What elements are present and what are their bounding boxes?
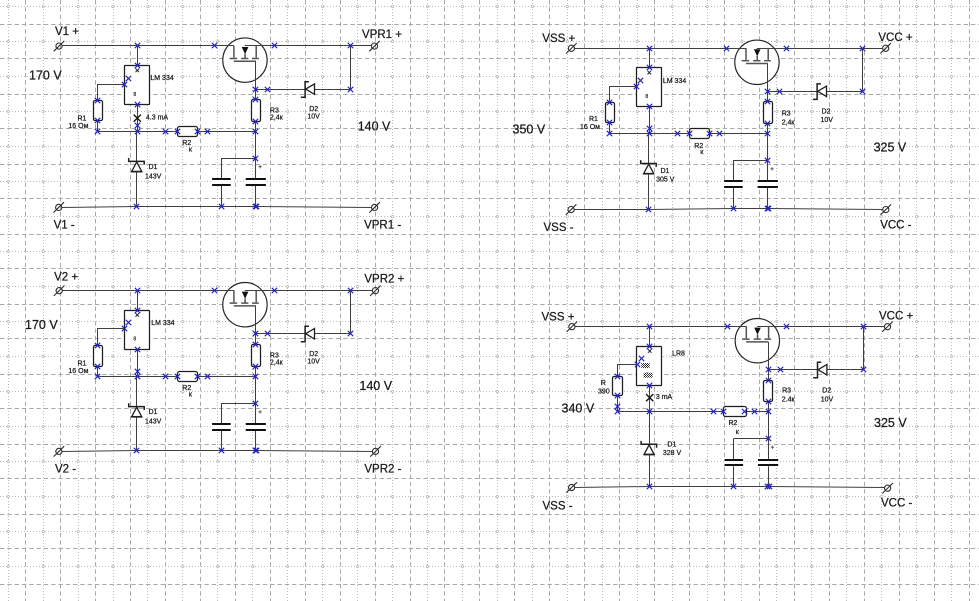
node marks regulator [635, 344, 652, 388]
node marks regulator [122, 308, 140, 352]
svg-text:LR8: LR8 [672, 351, 685, 358]
svg-text:8: 8 [133, 337, 136, 343]
resistor R2 [178, 127, 198, 154]
capacitor C left B [723, 160, 744, 208]
wire right branch to top rail [350, 46, 352, 89]
polarity mark [770, 167, 773, 170]
wire mosfet channel to drain node [768, 342, 770, 370]
node marks top rail [135, 288, 353, 293]
svg-text:LM 334: LM 334 [151, 320, 174, 327]
polarity mark [258, 165, 261, 168]
svg-text:D1: D1 [667, 441, 676, 448]
svg-text:VCC +: VCC + [879, 311, 913, 323]
terminal VSS + [566, 43, 577, 53]
node marks capacitors [134, 401, 259, 453]
wire capacitor branch [221, 403, 255, 405]
resistor R2 [690, 129, 710, 156]
zener D2 10V [813, 84, 833, 124]
mosfet Q C [223, 283, 268, 327]
resistor R [598, 377, 623, 396]
svg-text:VCC +: VCC + [878, 32, 912, 44]
wire drain node to R3 [767, 91, 769, 101]
wire bus to D1 [648, 134, 650, 164]
wire R1 to bus [617, 396, 619, 412]
svg-text:10V: 10V [307, 114, 320, 121]
svg-text:4.3 mA: 4.3 mA [146, 114, 169, 121]
wire bus [610, 133, 768, 135]
terminal VCC - [882, 483, 893, 493]
svg-text:VSS -: VSS - [543, 501, 573, 513]
wire R3 to bus [768, 402, 770, 412]
svg-text:340 V: 340 V [562, 401, 595, 415]
zener D1 143V [129, 403, 162, 425]
svg-text:8: 8 [133, 92, 136, 98]
node marks drain [765, 89, 865, 94]
wire bus [98, 131, 256, 133]
svg-text:VCC -: VCC - [881, 498, 912, 510]
svg-text:D2: D2 [309, 351, 318, 358]
mosfet Q A [223, 38, 268, 82]
node marks capacitors [647, 436, 772, 489]
capacitor C right A [245, 158, 267, 206]
resistor R2 [724, 407, 747, 436]
node marks top rail [647, 46, 865, 51]
wire capacitor branch [734, 438, 768, 440]
svg-text:D1: D1 [149, 164, 158, 171]
wire D1 to bottom rail [136, 172, 138, 207]
svg-text:350 V: 350 V [513, 123, 546, 137]
svg-text:VPR1 +: VPR1 + [362, 29, 402, 41]
svg-text:R1: R1 [78, 115, 87, 122]
resistor R3 [252, 100, 284, 122]
zener D1 328 V [641, 441, 681, 457]
wire bus to capacitor node [255, 131, 257, 158]
svg-text:R3: R3 [270, 352, 279, 359]
wire drain node to R3 [255, 89, 257, 99]
svg-text:143V: 143V [145, 418, 162, 425]
terminal VPR2 - [370, 446, 381, 456]
svg-text:VCC -: VCC - [880, 219, 911, 231]
svg-text:D2: D2 [309, 106, 318, 113]
wire regulator R-pin to R1 [98, 85, 125, 101]
wire D1 to bottom rail [648, 174, 650, 209]
wire mosfet channel to drain node [767, 64, 769, 92]
wire bottom rail VSS - to VCC - [575, 209, 883, 210]
svg-text:VPR1 -: VPR1 - [364, 220, 401, 232]
wire bus to D1 [136, 377, 138, 407]
svg-text:V1 -: V1 - [54, 220, 75, 232]
regulator U LM 334 [125, 66, 174, 105]
svg-text:R3: R3 [782, 387, 791, 394]
svg-text:R1: R1 [589, 116, 598, 123]
resistor R3 [764, 381, 796, 404]
node marks R1 [95, 98, 100, 134]
wire R1 to bus [609, 123, 611, 134]
resistor R1 [68, 346, 102, 375]
node marks capacitors [134, 156, 259, 209]
wire R1 to bus [97, 121, 99, 132]
svg-text:V2 +: V2 + [54, 271, 78, 283]
wire regulator output to bus [137, 349, 139, 376]
svg-text:VSS -: VSS - [544, 222, 574, 234]
svg-text:16 Ом: 16 Ом [68, 368, 88, 375]
node marks R3 [766, 378, 771, 414]
zener D1 143V [129, 158, 162, 180]
wire bus to capacitor node [255, 377, 257, 404]
terminal V1 + [54, 41, 65, 51]
capacitor C right C [245, 403, 267, 450]
wire bottom rail V1 - to VPR1 - [62, 207, 372, 208]
node marks bus and R2 [675, 131, 722, 136]
wire bus to capacitor node [767, 134, 769, 161]
node marks R1 [615, 374, 620, 414]
node marks bus and R2 [163, 374, 210, 379]
terminal VSS - [566, 204, 577, 214]
svg-text:143V: 143V [145, 173, 162, 180]
svg-text:V1 +: V1 + [55, 26, 79, 38]
resistor R2 [178, 372, 198, 399]
svg-text:VSS +: VSS + [542, 33, 575, 45]
node marks R3 [765, 99, 770, 136]
wire top rail VSS + to VCC + [575, 326, 746, 328]
wire R1 to bus [97, 366, 99, 377]
wire top rail VSS + to VCC + [575, 48, 746, 50]
zener D1 305 V [641, 160, 675, 183]
terminal VCC - [881, 204, 892, 214]
wire top rail V2 + to VPR2 + [62, 290, 234, 292]
node marks R1 [95, 343, 100, 379]
node marks regulator output [615, 404, 652, 414]
wire capacitor branch [733, 160, 767, 162]
zener D2 10V [301, 326, 320, 365]
terminal VPR1 - [369, 202, 380, 212]
svg-text:10V: 10V [821, 397, 834, 404]
svg-text:325 V: 325 V [874, 141, 907, 155]
svg-text:R3: R3 [782, 111, 791, 118]
wire regulator output to bus [649, 385, 651, 412]
regulator U LM 334 [637, 68, 687, 107]
resistor R3 [764, 102, 796, 127]
node marks R3 [253, 342, 258, 379]
node marks top rail [135, 43, 353, 48]
svg-text:LM 334: LM 334 [663, 78, 686, 85]
mosfet Q B [735, 40, 780, 84]
regulator U LR8 [637, 347, 686, 386]
zener D2 10V [301, 82, 320, 121]
wire top rail to regulator input [649, 48, 651, 68]
svg-text:325 V: 325 V [874, 416, 907, 430]
polarity mark [258, 410, 261, 413]
node marks R3 [253, 97, 258, 134]
resistor R3 [252, 345, 284, 367]
wire bottom rail VSS - to VCC - [575, 487, 885, 488]
wire capacitor branch [221, 158, 255, 160]
current marker 3 mA [646, 394, 672, 401]
svg-text:10V: 10V [821, 117, 834, 124]
terminal V1 - [53, 202, 64, 212]
terminal VCC + [882, 322, 893, 332]
node marks bus and R2 [163, 129, 210, 134]
wire top rail to regulator input [137, 46, 139, 66]
node marks bus and R2 [711, 409, 757, 414]
wire top rail to regulator input [137, 290, 139, 310]
node marks capacitors [646, 158, 771, 212]
wire regulator output to bus [649, 107, 651, 134]
svg-text:D2: D2 [822, 387, 831, 394]
current marker 4.3 mA [134, 114, 169, 122]
svg-text:VSS +: VSS + [542, 312, 575, 324]
wire bus [617, 411, 768, 413]
wire drain node to R3 [768, 370, 770, 380]
wire regulator R-pin to R1 [98, 329, 125, 346]
polarity mark [771, 446, 774, 449]
svg-text:140 V: 140 V [359, 379, 392, 393]
node marks regulator output [135, 369, 140, 379]
wire mosfet channel to drain node [255, 61, 257, 89]
wire drain node to R3 [255, 334, 257, 345]
zener D2 10V [813, 362, 833, 403]
wire regulator output to bus [137, 105, 139, 132]
wire D1 to bottom rail [649, 455, 651, 487]
terminal VCC + [880, 43, 891, 53]
svg-text:2,4к: 2,4к [270, 115, 284, 122]
wire drain node to D2 [768, 369, 863, 371]
wire bus [98, 376, 256, 378]
wire mosfet channel to drain node [255, 306, 257, 334]
wire regulator R-pin to R1 [618, 365, 637, 377]
svg-text:VPR2 -: VPR2 - [364, 463, 401, 475]
node marks drain [253, 87, 353, 92]
wire top rail V1 + to VPR1 + [62, 45, 234, 47]
wire R3 to bus [767, 123, 769, 133]
wire R3 to bus [255, 366, 257, 376]
svg-text:2,4к: 2,4к [782, 120, 796, 127]
svg-text:D2: D2 [822, 109, 831, 116]
terminal VSS + [567, 322, 578, 332]
svg-text:R1: R1 [78, 361, 87, 368]
node marks R1 [607, 100, 612, 136]
svg-text:V2 -: V2 - [55, 463, 76, 475]
terminal VPR1 + [369, 41, 380, 51]
terminal VSS - [566, 482, 577, 492]
svg-text:16 Ом: 16 Ом [580, 124, 600, 131]
svg-text:D1: D1 [661, 168, 670, 175]
capacitor C right B [757, 160, 779, 208]
resistor R1 [68, 101, 102, 130]
svg-text:10V: 10V [307, 359, 320, 366]
svg-text:R3: R3 [270, 107, 279, 114]
svg-text:R2: R2 [729, 420, 738, 427]
svg-text:2.4к: 2.4к [782, 397, 796, 404]
svg-text:2,4к: 2,4к [270, 360, 284, 367]
capacitor C left C [211, 403, 232, 450]
node marks regulator output [135, 123, 140, 134]
capacitor C left D [724, 439, 745, 487]
wire regulator R-pin to R1 [610, 87, 637, 103]
wire right branch to top rail [862, 48, 864, 91]
wire bus to D1 [649, 412, 651, 444]
svg-text:3 mA: 3 mA [656, 394, 673, 401]
svg-text:R: R [601, 380, 606, 387]
capacitor C right D [757, 439, 779, 487]
terminal VPR2 + [370, 286, 381, 296]
wire drain node to D2 [768, 91, 863, 93]
terminal V2 - [54, 446, 65, 456]
node marks regulator [634, 65, 652, 109]
wire R3 to bus [255, 121, 257, 131]
svg-text:16 Ом: 16 Ом [68, 123, 88, 130]
node marks top rail [647, 324, 866, 329]
wire bus to D1 [136, 131, 138, 161]
svg-text:LM 334: LM 334 [150, 75, 173, 82]
svg-text:390: 390 [598, 389, 610, 396]
resistor R1 [580, 103, 615, 131]
wire bottom rail V2 - to VPR2 - [63, 451, 373, 452]
wire drain node to D2 [256, 89, 351, 91]
svg-text:328 V: 328 V [663, 450, 682, 457]
svg-text:170 V: 170 V [25, 318, 58, 332]
svg-text:D1: D1 [149, 409, 158, 416]
wire bus to capacitor node [768, 412, 770, 439]
svg-text:170 V: 170 V [29, 69, 62, 83]
wire right branch to top rail [863, 326, 865, 369]
wire D1 to bottom rail [136, 417, 138, 451]
wire top rail to regulator input [649, 326, 651, 346]
node marks regulator [122, 63, 140, 107]
capacitor C left A [211, 158, 232, 206]
mosfet Q D [735, 319, 780, 363]
regulator U LM 334 [125, 311, 175, 350]
wire right branch to top rail [350, 290, 352, 333]
node marks regulator output [647, 126, 652, 136]
node marks drain [253, 331, 353, 336]
node marks drain [766, 367, 866, 372]
svg-text:8: 8 [645, 94, 648, 100]
wire drain node to D2 [256, 333, 351, 335]
svg-text:VPR2 +: VPR2 + [364, 273, 404, 285]
svg-text:140 V: 140 V [358, 120, 391, 134]
terminal V2 + [54, 286, 65, 296]
svg-text:305 V: 305 V [656, 177, 675, 184]
